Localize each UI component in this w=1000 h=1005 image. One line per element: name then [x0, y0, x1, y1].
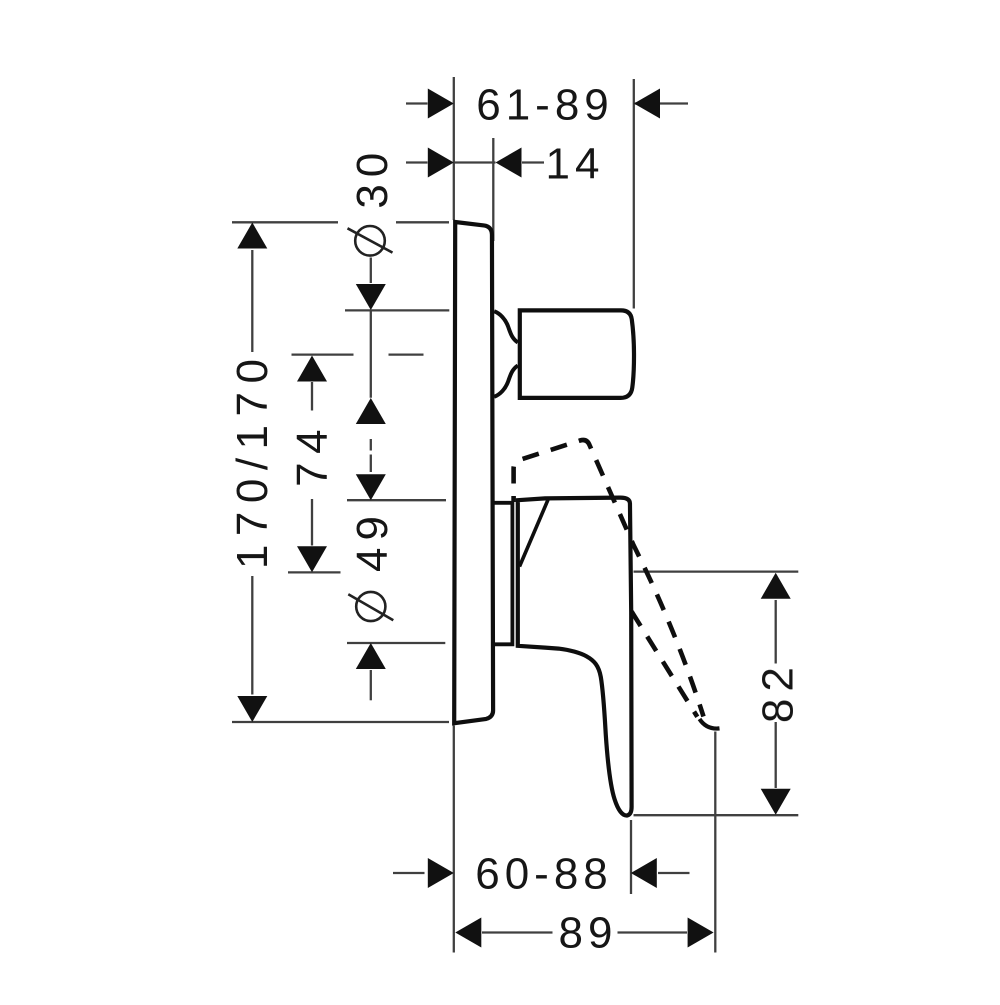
svg-text:82: 82 — [754, 660, 803, 723]
svg-text:60-88: 60-88 — [475, 850, 613, 899]
svg-text:89: 89 — [559, 909, 618, 958]
svg-text:30: 30 — [348, 146, 397, 209]
svg-text:49: 49 — [348, 509, 397, 572]
svg-text:74: 74 — [288, 421, 337, 487]
svg-text:170/170: 170/170 — [228, 351, 277, 570]
svg-text:61-89: 61-89 — [476, 80, 614, 129]
svg-text:14: 14 — [546, 140, 605, 189]
